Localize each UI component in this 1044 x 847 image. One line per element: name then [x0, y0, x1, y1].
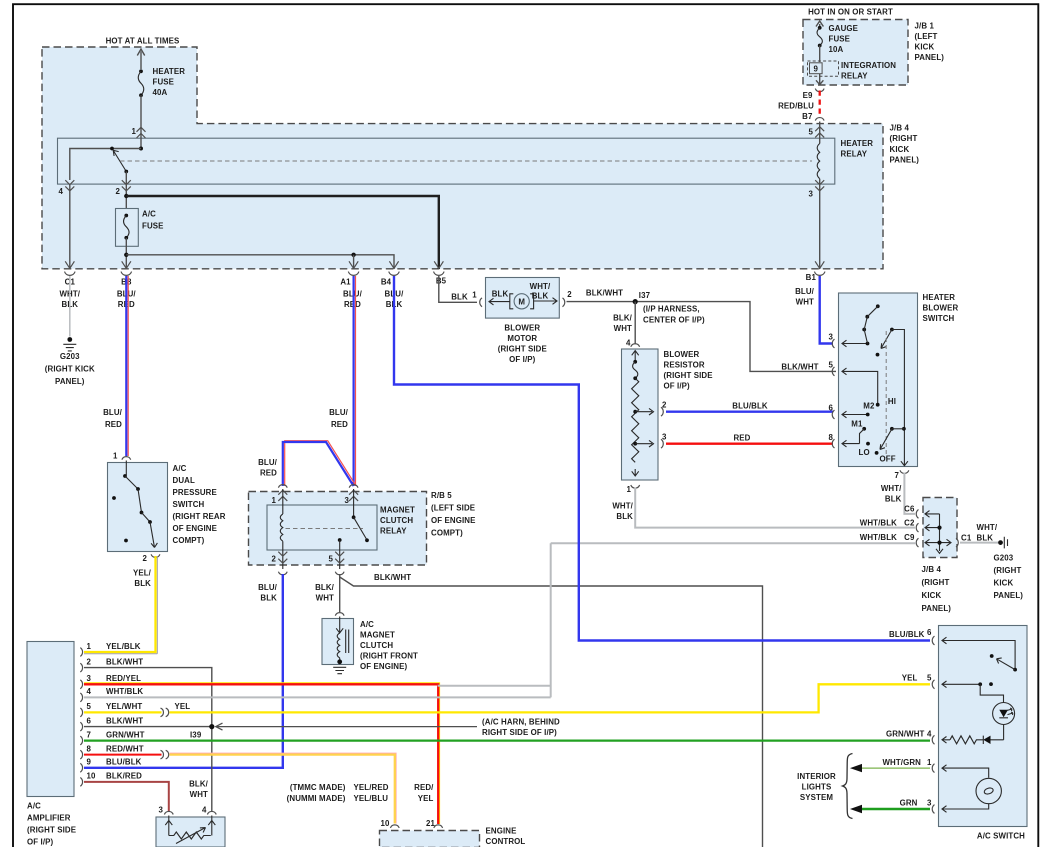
A/C switch contact arm: [1013, 668, 1017, 672]
svg-text:(RIGHT: (RIGHT: [994, 566, 1022, 575]
magnet clutch coil: [337, 633, 340, 661]
svg-text:PRESSURE: PRESSURE: [173, 488, 217, 497]
svg-text:PANEL): PANEL): [994, 591, 1024, 600]
svg-text:CLUTCH: CLUTCH: [360, 641, 393, 650]
svg-text:BLU/: BLU/: [103, 408, 123, 417]
switch lower chain dots: [890, 427, 894, 431]
svg-text:HEATER: HEATER: [153, 67, 186, 76]
svg-text:(RIGHT SIDE: (RIGHT SIDE: [27, 826, 76, 835]
svg-text:9: 9: [87, 758, 92, 767]
svg-text:BLU/: BLU/: [258, 583, 278, 592]
svg-text:9: 9: [814, 64, 819, 73]
svg-text:3: 3: [927, 799, 932, 808]
svg-text:RED/YEL: RED/YEL: [106, 674, 141, 683]
switch arm lower: [880, 429, 892, 450]
connector B8 at band bottom: [121, 261, 132, 275]
J/B4 internal bus down arrow: [936, 514, 943, 553]
blower resistor internals: entry arrow: [632, 351, 639, 362]
connector A1 at band bottom: [348, 261, 359, 275]
wire GRN interior lights: [854, 808, 930, 811]
svg-text:M2: M2: [863, 402, 875, 411]
blower motor internal right arrow: [534, 298, 557, 305]
A/C switch pin1 internal line to lamp: [942, 765, 989, 778]
connector C1 (right): [956, 538, 958, 547]
svg-text:(RIGHT: (RIGHT: [890, 134, 918, 143]
svg-text:5: 5: [808, 128, 813, 137]
svg-text:2: 2: [662, 401, 667, 410]
svg-text:BLK: BLK: [134, 579, 151, 588]
svg-text:RED: RED: [733, 434, 750, 443]
svg-text:KICK: KICK: [994, 579, 1014, 588]
svg-text:MOTOR: MOTOR: [507, 334, 537, 343]
svg-text:WHT: WHT: [614, 324, 632, 333]
svg-text:BLU/BLK: BLU/BLK: [732, 402, 768, 411]
svg-text:2: 2: [271, 555, 276, 564]
connector B4 at band bottom: [389, 261, 400, 275]
wire heavy black to B5: [126, 196, 439, 269]
svg-text:BLK/WHT: BLK/WHT: [781, 362, 818, 371]
heater relay mechanical link (dashed): [120, 160, 812, 162]
svg-text:OF I/P): OF I/P): [664, 382, 691, 391]
junction block J/B 1 box: [803, 20, 908, 86]
svg-text:FUSE: FUSE: [153, 78, 175, 87]
svg-text:OF ENGINE: OF ENGINE: [173, 524, 217, 533]
node fuse output junction to B4: [124, 253, 128, 257]
svg-text:WHT/: WHT/: [612, 502, 633, 511]
svg-text:BLK: BLK: [451, 293, 468, 302]
connector switch pin 7: [900, 470, 909, 473]
svg-text:A/C: A/C: [360, 620, 374, 629]
svg-text:RELAY: RELAY: [380, 527, 407, 536]
svg-text:WHT/: WHT/: [977, 523, 998, 532]
svg-text:KICK: KICK: [915, 42, 935, 51]
magnet clutch plates: [346, 630, 349, 654]
engine control module box: [380, 831, 480, 847]
svg-text:BLK/RED: BLK/RED: [106, 772, 142, 781]
svg-text:PANEL): PANEL): [922, 604, 952, 613]
connector amplifier pin 1: [80, 648, 82, 657]
wire amplifier pin 6 BLK/WHT to I39: [84, 726, 210, 728]
svg-text:WHT: WHT: [796, 298, 814, 307]
svg-text:BLK/WHT: BLK/WHT: [106, 657, 143, 666]
svg-text:I39: I39: [190, 731, 202, 740]
wire YEL/BLK pressure switch to amplifier pin 1: [84, 556, 157, 654]
svg-text:RED/WHT: RED/WHT: [106, 744, 144, 753]
svg-text:A/C SWITCH: A/C SWITCH: [977, 832, 1025, 841]
A/C amplifier U2 box: [27, 642, 74, 797]
wire B8 BLU/RED to pressure switch: [127, 276, 129, 456]
pin 3 connector out of relay box: [819, 179, 821, 269]
relay coil: [280, 489, 283, 569]
svg-text:WHT/BLK: WHT/BLK: [860, 519, 897, 528]
svg-text:4: 4: [58, 187, 63, 196]
svg-text:M: M: [518, 298, 525, 307]
blower resistor tap to pin 2: [633, 410, 637, 414]
svg-text:MAGNET: MAGNET: [360, 631, 395, 640]
wire C1 to ground G203: [69, 276, 71, 337]
svg-text:(LEFT: (LEFT: [915, 32, 938, 41]
connector amplifier pin 5: [80, 708, 82, 717]
switch pin5 internal line to M2: [842, 368, 878, 405]
fuse GAUGE FUSE 10A: [818, 26, 822, 30]
magnet clutch entry arrow: [336, 617, 343, 634]
connector amplifier pin 7: [80, 736, 82, 745]
svg-text:KICK: KICK: [922, 591, 942, 600]
pressure switch internals: [125, 461, 127, 476]
wire BLU/BLK resistor pin 2 to switch pin 6: [666, 411, 833, 413]
connector amplifier pin 3: [80, 680, 82, 689]
svg-text:R/B 5: R/B 5: [431, 491, 452, 500]
svg-text:RED/: RED/: [414, 783, 434, 792]
svg-text:YEL/BLU: YEL/BLU: [354, 794, 389, 803]
wire B4 BLU/BLK to A/C switch pin 6: [394, 276, 930, 641]
svg-text:MAGNET: MAGNET: [380, 506, 415, 515]
connector E9: [815, 89, 824, 92]
svg-text:WHT/BLK: WHT/BLK: [860, 533, 897, 542]
svg-text:WHT/BLK: WHT/BLK: [106, 687, 143, 696]
svg-text:1: 1: [87, 642, 92, 651]
svg-text:M1: M1: [851, 420, 863, 429]
A/C switch pin4 diode: [983, 736, 990, 744]
blower motor M1 box: [486, 278, 560, 319]
svg-text:(A/C HARN, BEHIND: (A/C HARN, BEHIND: [482, 718, 560, 727]
A/C switch LED feed line: [980, 684, 1003, 702]
svg-text:SWITCH: SWITCH: [923, 314, 955, 323]
svg-text:1: 1: [271, 496, 276, 505]
wire amplifier pin 5 YEL/WHT: [84, 711, 162, 713]
wire A/C harness lead with arrow to I39: [216, 723, 478, 730]
svg-text:WHT: WHT: [316, 594, 334, 603]
wire A1 BLU/RED to magnet clutch relay pin 3: [355, 276, 357, 486]
svg-text:B1: B1: [806, 273, 817, 282]
svg-text:BLU/BLK: BLU/BLK: [889, 630, 925, 639]
A/C switch pin6 internal line: [942, 637, 1015, 668]
junction block J/B 4 (right kick panel) small box: [923, 498, 957, 558]
wire heater fuse feed arrow: [137, 49, 144, 69]
switch position dashed guide: [885, 331, 887, 458]
relay output node to pin 5: [338, 538, 342, 542]
A/C thermistor box: [156, 817, 225, 847]
junction block J/B 4 band + HOT AT ALL TIMES box (fused power region): [42, 47, 883, 269]
wire amplifier pin 3 RED/YEL to ECM pin 21: [84, 683, 440, 824]
svg-text:G203: G203: [994, 554, 1014, 563]
interior lights system brace: [843, 754, 853, 819]
svg-text:COMPT): COMPT): [173, 536, 205, 545]
switch pin8 internal line: [842, 440, 860, 447]
svg-text:BLU/: BLU/: [258, 458, 278, 467]
svg-text:8: 8: [87, 744, 92, 753]
svg-text:E9: E9: [803, 91, 813, 100]
connector C1 at band bottom: [65, 261, 76, 275]
svg-text:BLK/: BLK/: [315, 583, 335, 592]
svg-text:(RIGHT FRONT: (RIGHT FRONT: [360, 652, 418, 661]
svg-text:4: 4: [202, 806, 207, 815]
LED to pin 4 line: [1003, 725, 1005, 740]
svg-text:RED/BLU: RED/BLU: [778, 102, 814, 111]
svg-text:4: 4: [927, 730, 932, 739]
svg-text:LO: LO: [859, 448, 870, 457]
heater relay movable contact arm: [113, 150, 126, 172]
node I37 splice: [633, 299, 638, 304]
svg-text:BLU/: BLU/: [329, 408, 349, 417]
integration relay pin 9 box: [810, 63, 823, 74]
svg-text:1: 1: [131, 127, 136, 136]
svg-text:(RIGHT: (RIGHT: [922, 578, 950, 587]
connector amplifier pin 4: [80, 693, 82, 702]
svg-text:2: 2: [87, 657, 92, 666]
relay mechanical link dashed: [286, 528, 364, 530]
wire B5 BLK to blower motor: [439, 276, 477, 302]
switch pin6 internal line: [842, 411, 866, 418]
svg-text:HI: HI: [888, 397, 896, 406]
svg-text:BLK: BLK: [616, 512, 633, 521]
svg-text:CLUTCH: CLUTCH: [380, 516, 413, 525]
svg-text:RED: RED: [105, 420, 122, 429]
wire C1 WHT/BLK to ground: [960, 542, 998, 544]
svg-text:A1: A1: [340, 277, 351, 286]
svg-text:BLK: BLK: [532, 292, 549, 301]
A/C dual pressure switch S2 box: [108, 463, 168, 552]
svg-text:WHT/GRN: WHT/GRN: [882, 758, 921, 767]
svg-text:WHT/: WHT/: [881, 484, 902, 493]
J/B4 internal arrow C9 to C1: [925, 539, 951, 546]
switch common feed from HI: [890, 328, 894, 332]
svg-text:3: 3: [808, 190, 813, 199]
wire integration relay output arrow E9: [816, 74, 823, 85]
svg-text:RIGHT SIDE OF I/P): RIGHT SIDE OF I/P): [482, 728, 557, 737]
A/C switch pin4 internal resistor: [942, 736, 983, 744]
connector amplifier pin 6: [80, 722, 82, 731]
heater relay coil: [817, 144, 820, 179]
node A1 tap junction: [351, 253, 355, 257]
svg-text:(LEFT SIDE: (LEFT SIDE: [431, 504, 475, 513]
svg-text:(RIGHT KICK: (RIGHT KICK: [45, 365, 95, 374]
wire RED/BLU dashed (in-harness): [819, 91, 821, 117]
svg-text:YEL: YEL: [175, 702, 191, 711]
svg-text:10: 10: [87, 772, 97, 781]
connector blower motor pin 1: [480, 298, 482, 307]
svg-text:B5: B5: [436, 277, 447, 286]
svg-text:3: 3: [158, 806, 163, 815]
A/C switch S3 box: [939, 626, 1028, 827]
fuse A/C FUSE box: [116, 209, 139, 247]
connector magnet clutch: [335, 613, 344, 616]
svg-text:HEATER: HEATER: [841, 139, 874, 148]
svg-text:YEL/: YEL/: [133, 569, 152, 578]
svg-text:7: 7: [894, 471, 899, 480]
svg-text:I37: I37: [639, 291, 651, 300]
switch arm upper: [881, 330, 892, 349]
svg-text:AMPLIFIER: AMPLIFIER: [27, 814, 71, 823]
svg-text:RESISTOR: RESISTOR: [664, 361, 705, 370]
fuse HEATER FUSE 40A: [139, 69, 143, 73]
wire resistor pin 1 WHT/BLK to C2: [635, 488, 915, 528]
svg-text:COMPT): COMPT): [431, 529, 463, 538]
svg-text:YEL: YEL: [902, 674, 918, 683]
wire amplifier pin 2 BLK/WHT to thermistor pin 4: [84, 668, 212, 812]
connector amplifier pin 8: [80, 750, 82, 759]
svg-text:1: 1: [472, 291, 477, 300]
svg-text:CONTROL: CONTROL: [486, 837, 526, 846]
wire amplifier pin 4 WHT/BLK to C9: [84, 543, 916, 697]
svg-text:KICK: KICK: [890, 145, 910, 154]
wire WHT/GRN interior lights: [854, 767, 930, 769]
svg-text:OF ENGINE: OF ENGINE: [431, 516, 475, 525]
heater relay U1 inner box: [58, 138, 835, 184]
relay contact fixed: [353, 489, 355, 517]
ground G203 (left): [67, 337, 72, 342]
svg-text:OF ENGINE): OF ENGINE): [360, 662, 407, 671]
wire YEL/RED to ECM pin 10: [170, 753, 397, 823]
svg-text:GRN: GRN: [900, 799, 918, 808]
wire motor pin 2 BLK/WHT to I37 and switch pin 5: [567, 302, 837, 372]
svg-text:(RIGHT REAR: (RIGHT REAR: [173, 512, 226, 521]
wire amplifier pin 7 GRN/WHT to A/C switch pin 4: [84, 739, 930, 741]
svg-text:40A: 40A: [153, 88, 168, 97]
svg-text:5: 5: [328, 555, 333, 564]
magnet clutch relay K1 inner box: [267, 505, 377, 550]
svg-text:10: 10: [380, 819, 390, 828]
svg-text:3: 3: [87, 674, 92, 683]
svg-text:GAUGE: GAUGE: [829, 24, 859, 33]
svg-text:J/B 4: J/B 4: [922, 565, 942, 574]
motor M symbol: [514, 294, 529, 309]
svg-text:3: 3: [662, 433, 667, 442]
blower resistor element zigzag: [632, 378, 639, 462]
svg-text:7: 7: [87, 730, 92, 739]
wire amplifier pin 8 RED/WHT: [84, 754, 162, 756]
svg-text:10A: 10A: [829, 45, 844, 54]
blower resistor exit arrow to pin 1: [632, 469, 639, 476]
switch rotor contacts left chain: [876, 304, 880, 308]
svg-text:INTEGRATION: INTEGRATION: [841, 61, 896, 70]
svg-text:BLOWER: BLOWER: [504, 324, 540, 333]
svg-text:1: 1: [626, 485, 631, 494]
wire RED resistor pin 3 to switch pin 8: [666, 443, 833, 445]
svg-text:C1: C1: [961, 533, 972, 542]
blower motor internal left arrow: [489, 298, 510, 305]
wire fuse to integration relay: [819, 46, 821, 63]
svg-text:A/C: A/C: [142, 210, 156, 219]
LED indicator circle: [993, 703, 1015, 725]
wire to B4 and A1: [126, 255, 394, 269]
svg-text:2: 2: [142, 554, 147, 563]
svg-text:BLK/WHT: BLK/WHT: [374, 573, 411, 582]
ground G203 (right): [998, 540, 1003, 545]
connector B5 at band bottom: [434, 261, 445, 275]
svg-text:CENTER OF I/P): CENTER OF I/P): [643, 315, 705, 324]
svg-text:OF I/P): OF I/P): [509, 355, 536, 364]
svg-text:PANEL): PANEL): [55, 377, 85, 386]
wire relay pin 5 BLK/WHT down: [340, 574, 763, 847]
wire B1 BLU/WHT to heater blower switch pin 3: [820, 276, 833, 344]
svg-text:BLK/WHT: BLK/WHT: [586, 288, 623, 297]
svg-text:(RIGHT SIDE: (RIGHT SIDE: [498, 345, 547, 354]
switch pin3 internal arrow line: [842, 340, 868, 347]
J/B4 internal arrow C2: [925, 524, 940, 531]
A/C switch pin3 internal line to lamp: [942, 804, 989, 813]
svg-text:YEL/RED: YEL/RED: [354, 783, 389, 792]
wire BLK/WHT to magnet clutch: [339, 577, 341, 612]
svg-text:BLOWER: BLOWER: [923, 304, 959, 313]
svg-text:BLK: BLK: [492, 289, 509, 298]
svg-text:1: 1: [113, 452, 118, 461]
pin 5 connector into J/B4 band: [819, 122, 821, 144]
wire pin4 to C1: [69, 184, 71, 269]
svg-text:WHT/: WHT/: [530, 282, 551, 291]
svg-text:A/C: A/C: [173, 464, 187, 473]
svg-text:J/B 1: J/B 1: [915, 21, 935, 30]
wire gauge fuse feed arrow: [816, 21, 823, 28]
svg-text:J/B 4: J/B 4: [890, 124, 910, 133]
connector amplifier pin 2: [80, 663, 82, 672]
splice on row 5: [161, 708, 169, 717]
svg-text:C6: C6: [904, 505, 915, 514]
blower resistor R1 box: [622, 349, 659, 480]
svg-text:GRN/WHT: GRN/WHT: [106, 730, 145, 739]
svg-text:5: 5: [927, 674, 932, 683]
illumination lamp: [976, 778, 1001, 803]
svg-text:(TMMC MADE): (TMMC MADE): [290, 783, 346, 792]
svg-text:BLK/: BLK/: [189, 779, 209, 788]
relay contact arm: [354, 517, 367, 540]
svg-text:RELAY: RELAY: [841, 71, 868, 80]
connector amplifier pin 10: [80, 778, 82, 787]
svg-text:RED: RED: [331, 420, 348, 429]
svg-text:BLOWER: BLOWER: [664, 350, 700, 359]
svg-text:2: 2: [115, 187, 120, 196]
svg-text:OFF: OFF: [880, 455, 896, 464]
svg-text:FUSE: FUSE: [142, 222, 164, 231]
svg-text:YEL: YEL: [418, 794, 434, 803]
node junction dot below pin 1: [139, 147, 143, 151]
thermistor internals: [165, 816, 215, 836]
svg-text:BLK: BLK: [260, 594, 277, 603]
svg-text:BLU/: BLU/: [795, 287, 815, 296]
J/B4 internal arrow C6: [925, 511, 940, 518]
svg-text:PANEL): PANEL): [890, 155, 920, 164]
svg-text:BLU/BLK: BLU/BLK: [106, 758, 142, 767]
svg-text:BLK: BLK: [977, 533, 994, 542]
A/C magnet clutch L1 box: [322, 619, 354, 665]
svg-text:HEATER: HEATER: [923, 293, 956, 302]
heater relay fixed contact: [110, 147, 114, 151]
svg-text:LIGHTS: LIGHTS: [802, 783, 832, 792]
svg-text:6: 6: [927, 628, 932, 637]
connector B1 at band bottom: [814, 261, 825, 275]
svg-text:SYSTEM: SYSTEM: [800, 793, 833, 802]
svg-text:C2: C2: [904, 519, 915, 528]
svg-text:FUSE: FUSE: [829, 35, 851, 44]
wire I37 to blower resistor pin 4: [634, 302, 636, 344]
svg-text:RED: RED: [260, 469, 277, 478]
svg-text:BLK/WHT: BLK/WHT: [106, 716, 143, 725]
svg-text:DUAL: DUAL: [173, 476, 195, 485]
svg-text:4: 4: [87, 687, 92, 696]
wire YEL to A/C switch pin 5: [170, 684, 931, 712]
wire BLU/RED branch to relay pin 1: [285, 441, 356, 486]
svg-text:INTERIOR: INTERIOR: [797, 772, 836, 781]
wire A1 drop: [353, 255, 355, 269]
svg-text:A/C: A/C: [27, 802, 41, 811]
svg-text:YEL/BLK: YEL/BLK: [106, 642, 141, 651]
svg-text:ENGINE: ENGINE: [486, 826, 517, 835]
wire heater fuse to J/B4 pin 1: [140, 95, 142, 148]
wire relay pin 2 BLU/BLK to amplifier pin 9: [84, 574, 283, 768]
svg-text:YEL/WHT: YEL/WHT: [106, 702, 142, 711]
wire amplifier pin 10 BLK/RED to thermistor pin 3: [84, 782, 169, 812]
wire switch pin 7 WHT/BLK to C6: [904, 473, 915, 514]
